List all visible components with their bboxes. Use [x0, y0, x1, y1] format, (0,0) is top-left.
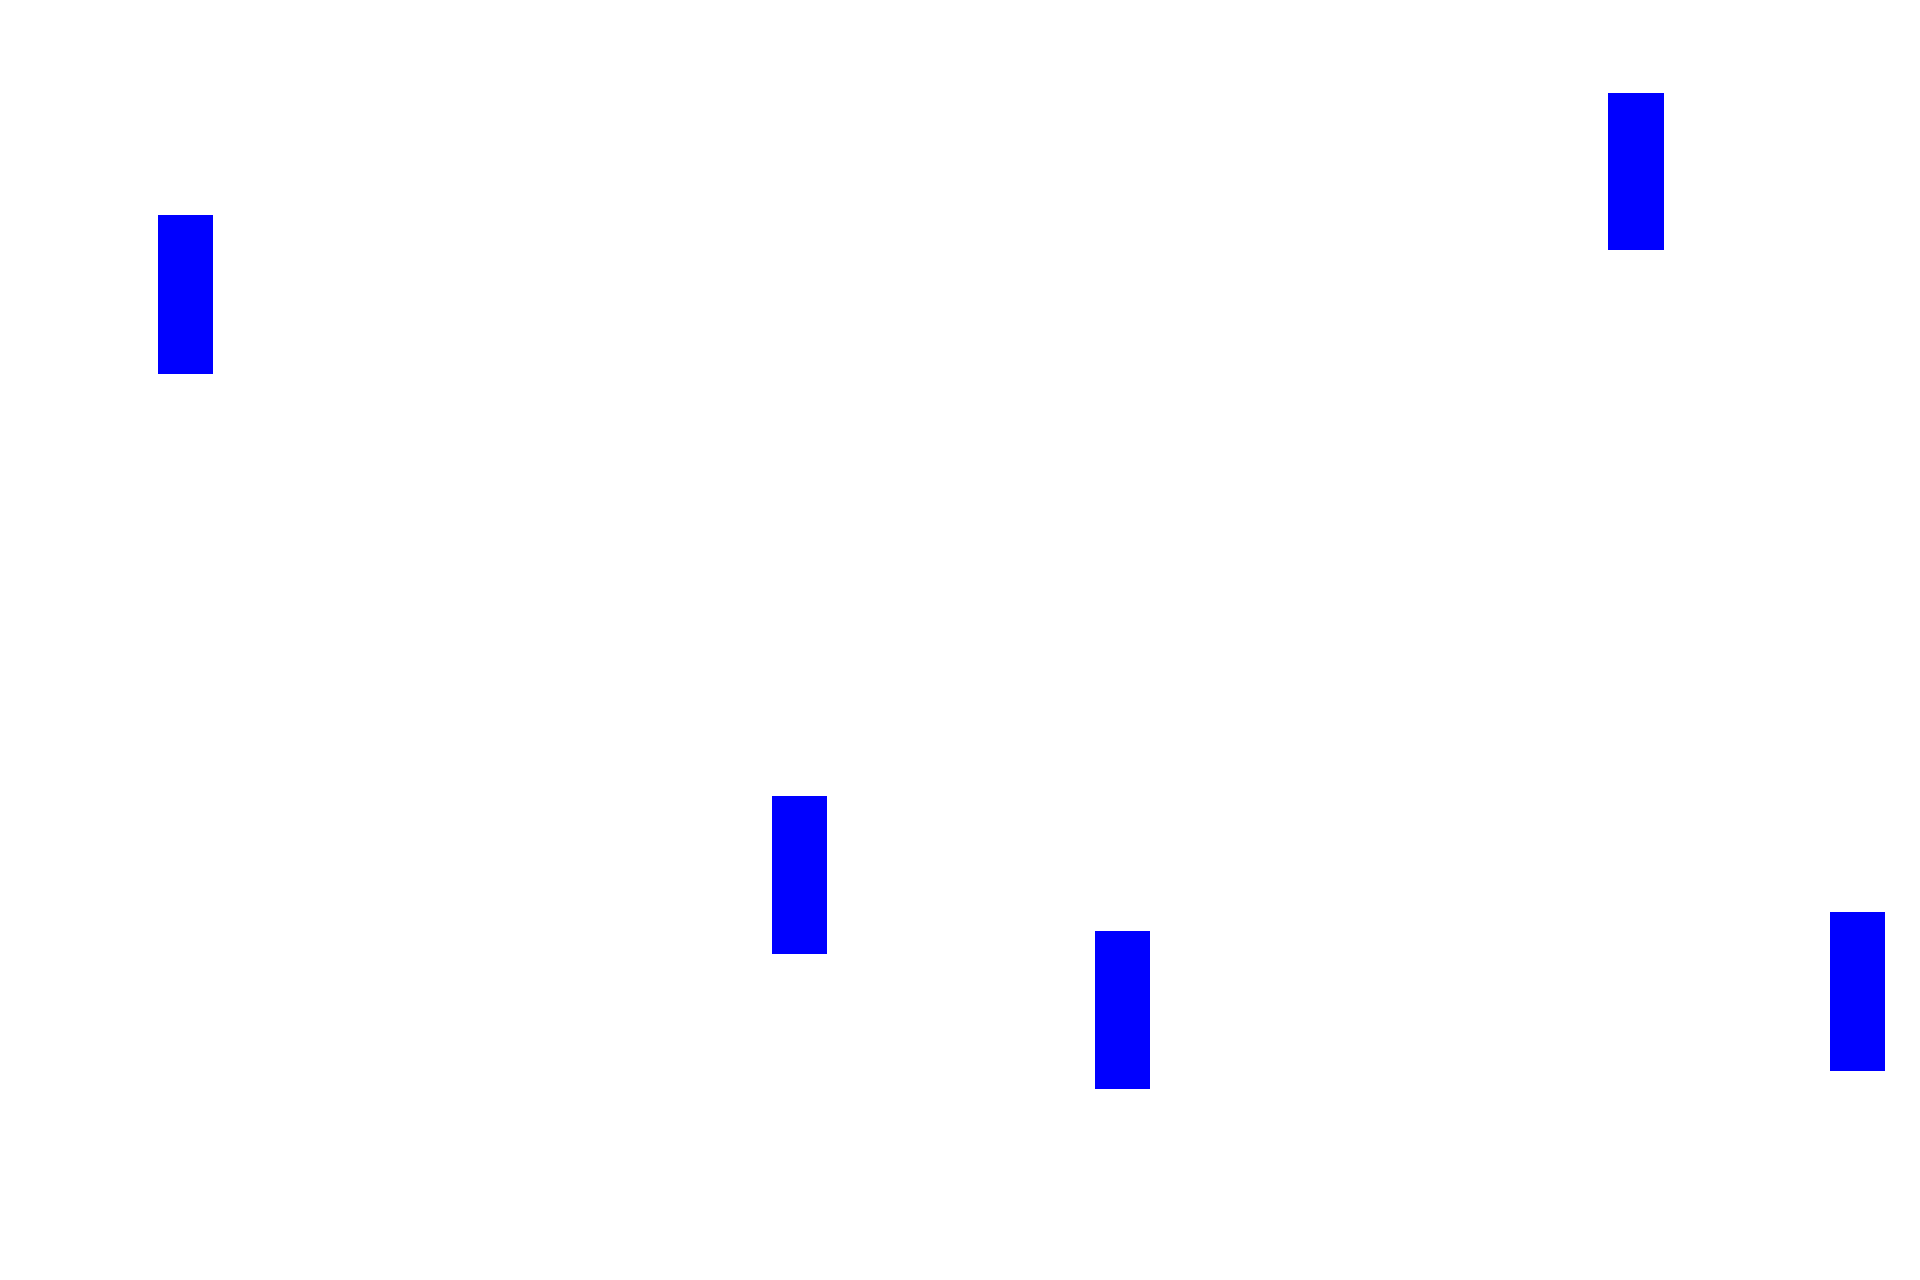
blue rectangle 1 (upper left) — [158, 215, 213, 374]
blue rectangle 3 (center) — [772, 796, 827, 954]
blue rectangle 4 (lower middle) — [1095, 931, 1150, 1089]
blue rectangle 5 (right edge) — [1830, 912, 1885, 1071]
blue rectangle 2 (top right) — [1608, 93, 1664, 250]
